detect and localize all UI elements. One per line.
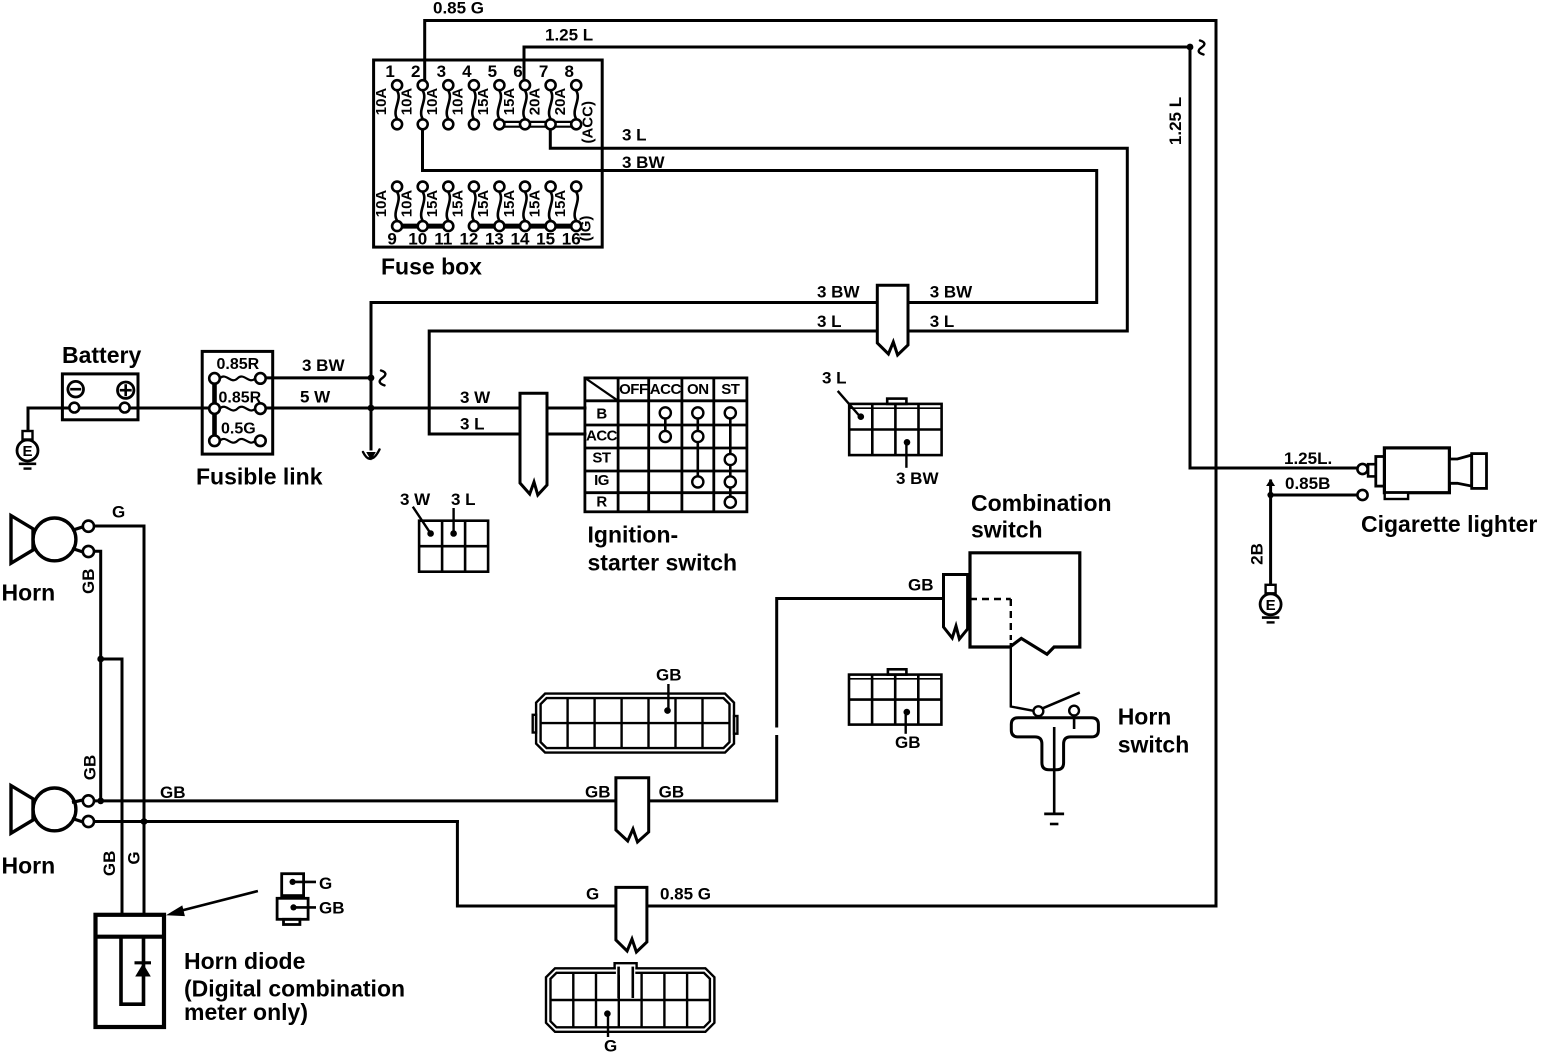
svg-text:8: 8	[564, 62, 573, 81]
svg-text:meter only): meter only)	[184, 999, 308, 1025]
svg-text:2: 2	[411, 62, 420, 81]
svg-text:Horn diode: Horn diode	[184, 948, 305, 974]
svg-text:Horn: Horn	[2, 580, 56, 606]
svg-text:3: 3	[437, 62, 446, 81]
svg-text:1.25 L: 1.25 L	[545, 26, 593, 45]
svg-text:10A: 10A	[424, 88, 441, 116]
svg-text:G: G	[125, 851, 144, 864]
svg-text:3 L: 3 L	[451, 490, 476, 509]
svg-text:3 BW: 3 BW	[896, 469, 939, 488]
svg-text:0.85R: 0.85R	[219, 390, 262, 407]
svg-text:GB: GB	[585, 783, 611, 802]
svg-text:Horn: Horn	[2, 852, 56, 878]
svg-text:15A: 15A	[475, 88, 492, 116]
svg-text:3 BW: 3 BW	[622, 153, 665, 172]
svg-text:3 L: 3 L	[460, 415, 485, 434]
svg-text:0.5G: 0.5G	[221, 420, 256, 437]
svg-text:E: E	[22, 443, 32, 460]
svg-text:Combination: Combination	[971, 490, 1112, 516]
svg-text:15A: 15A	[501, 88, 518, 116]
svg-text:9: 9	[387, 230, 396, 249]
svg-text:G: G	[319, 874, 332, 893]
svg-text:Cigarette lighter: Cigarette lighter	[1361, 511, 1537, 537]
svg-text:1: 1	[385, 62, 394, 81]
svg-text:1.25L.: 1.25L.	[1284, 449, 1332, 468]
svg-text:GB: GB	[319, 899, 345, 918]
svg-text:15A: 15A	[526, 190, 543, 218]
svg-text:13: 13	[485, 230, 504, 249]
svg-text:Horn: Horn	[1118, 704, 1172, 730]
svg-text:5 W: 5 W	[300, 387, 331, 406]
svg-text:2B: 2B	[1248, 543, 1267, 565]
svg-text:E: E	[1266, 597, 1276, 614]
svg-text:starter switch: starter switch	[588, 550, 738, 576]
svg-text:6: 6	[513, 62, 522, 81]
svg-text:1.25 L: 1.25 L	[1166, 97, 1185, 145]
svg-text:GB: GB	[100, 851, 119, 877]
svg-text:3 BW: 3 BW	[817, 283, 860, 302]
svg-text:3 L: 3 L	[822, 369, 847, 388]
svg-text:10A: 10A	[373, 190, 390, 218]
svg-text:3 W: 3 W	[400, 490, 431, 509]
svg-text:11: 11	[434, 230, 452, 249]
svg-text:GB: GB	[659, 783, 685, 802]
svg-text:20A: 20A	[526, 88, 543, 116]
svg-text:ACC: ACC	[586, 427, 618, 444]
svg-text:GB: GB	[908, 575, 934, 594]
svg-text:GB: GB	[895, 733, 921, 752]
svg-text:Fuse box: Fuse box	[381, 254, 482, 280]
svg-text:R: R	[596, 493, 607, 510]
svg-text:GB: GB	[656, 666, 682, 685]
svg-text:ST: ST	[721, 381, 740, 398]
svg-text:G: G	[586, 885, 599, 904]
svg-text:5: 5	[488, 62, 497, 81]
svg-text:0.85B: 0.85B	[1285, 474, 1330, 493]
svg-text:3 L: 3 L	[622, 126, 647, 145]
svg-text:15A: 15A	[424, 190, 441, 218]
svg-text:GB: GB	[160, 783, 186, 802]
svg-text:15A: 15A	[475, 190, 492, 218]
svg-text:3 L: 3 L	[817, 312, 842, 331]
svg-text:Fusible link: Fusible link	[196, 463, 323, 489]
svg-text:3 W: 3 W	[460, 388, 491, 407]
svg-text:0.85R: 0.85R	[217, 356, 260, 373]
svg-text:0.85 G: 0.85 G	[433, 0, 484, 17]
svg-text:15A: 15A	[450, 190, 467, 218]
svg-text:Ignition-: Ignition-	[588, 521, 679, 547]
svg-text:15: 15	[536, 230, 555, 249]
svg-text:14: 14	[511, 230, 530, 249]
svg-text:(ACC): (ACC)	[579, 101, 596, 144]
svg-text:15A: 15A	[501, 190, 518, 218]
svg-text:G: G	[604, 1037, 617, 1052]
svg-text:15A: 15A	[552, 190, 569, 218]
svg-text:12: 12	[459, 230, 478, 249]
svg-text:(Digital combination: (Digital combination	[184, 976, 405, 1002]
svg-text:switch: switch	[1118, 731, 1190, 757]
svg-text:0.85 G: 0.85 G	[660, 885, 711, 904]
svg-text:B: B	[596, 406, 607, 423]
svg-text:10A: 10A	[399, 88, 416, 116]
svg-text:3 L: 3 L	[930, 312, 955, 331]
svg-text:Battery: Battery	[62, 342, 141, 368]
svg-text:4: 4	[462, 62, 472, 81]
svg-text:7: 7	[539, 62, 548, 81]
svg-text:10A: 10A	[399, 190, 416, 218]
svg-text:3 BW: 3 BW	[930, 283, 973, 302]
svg-text:ON: ON	[687, 381, 709, 398]
svg-text:10: 10	[408, 230, 427, 249]
svg-text:ST: ST	[592, 449, 611, 466]
svg-text:GB: GB	[79, 568, 98, 594]
svg-text:20A: 20A	[552, 88, 569, 116]
svg-text:G: G	[112, 502, 125, 521]
svg-text:10A: 10A	[373, 88, 390, 116]
svg-text:ACC: ACC	[650, 381, 682, 398]
svg-text:OFF: OFF	[619, 381, 648, 398]
svg-text:3 BW: 3 BW	[302, 356, 345, 375]
svg-text:GB: GB	[81, 755, 100, 781]
svg-text:IG: IG	[594, 472, 609, 489]
svg-text:switch: switch	[971, 516, 1043, 542]
svg-text:(IG): (IG)	[578, 216, 595, 242]
svg-text:10A: 10A	[450, 88, 467, 116]
